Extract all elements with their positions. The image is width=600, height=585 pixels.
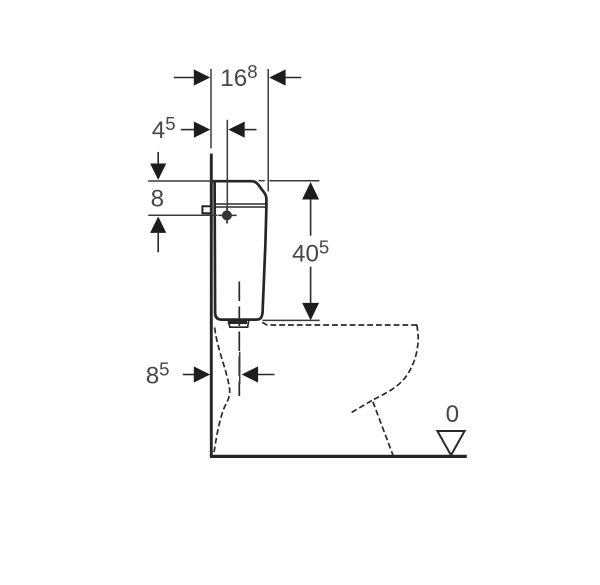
cistern body outline — [213, 181, 267, 319]
water inlet crosshair horizontal arm — [218, 214, 236, 216]
cistern lid seam lower line — [213, 206, 266, 208]
dim 8 lower level line — [148, 214, 217, 216]
bowl left dashed profile — [214, 328, 230, 455]
dim 16.8 left extension line — [210, 69, 212, 149]
dim 40.5 bottom reference line — [262, 319, 319, 321]
dim 4.5 left arrow — [181, 122, 211, 138]
bowl top dashed line — [262, 322, 417, 325]
dim 40.5 down arrowhead — [302, 303, 319, 321]
water inlet crosshair vertical arm — [226, 207, 228, 223]
svg-text:0: 0 — [446, 401, 459, 428]
cistern lid seam upper line — [213, 203, 266, 205]
dim 8 down arrow — [150, 152, 166, 180]
dim 4.5 right extension line — [226, 120, 228, 223]
dim 40.5 up arrowhead — [302, 182, 319, 200]
dim 8 up arrow — [150, 217, 166, 253]
flush pipe centerline — [238, 282, 240, 397]
dim 8.5 right arrow — [242, 366, 275, 382]
svg-text:168: 168 — [220, 61, 257, 92]
flush valve foot outline — [229, 321, 249, 327]
bowl right dashed profile — [372, 325, 418, 401]
water inlet crosshair circle — [222, 210, 232, 220]
svg-text:405: 405 — [292, 237, 329, 268]
datum triangle — [437, 431, 464, 455]
wall line — [210, 154, 213, 456]
wall bracket — [202, 206, 212, 213]
svg-text:8: 8 — [151, 186, 164, 213]
dim 8.5 left arrow — [183, 366, 210, 382]
dim 4.5 right arrow — [228, 122, 256, 138]
dim 40.5 dimension line — [310, 199, 312, 304]
bowl underside dashed tail — [350, 401, 372, 414]
bowl pedestal front dashed edge — [373, 402, 393, 456]
flush valve foot dark bar — [228, 320, 247, 324]
dim 16.8 right arrow — [269, 69, 301, 85]
floor line — [210, 455, 467, 458]
dim 8.5 right extension segment — [239, 352, 241, 384]
dim 16.8 right extension line — [267, 69, 269, 191]
svg-text:85: 85 — [146, 359, 170, 390]
svg-text:45: 45 — [152, 113, 176, 144]
dim 40.5 top reference line — [259, 180, 320, 182]
dim 8 upper level line — [148, 180, 212, 182]
dim 16.8 left arrow — [174, 69, 210, 85]
